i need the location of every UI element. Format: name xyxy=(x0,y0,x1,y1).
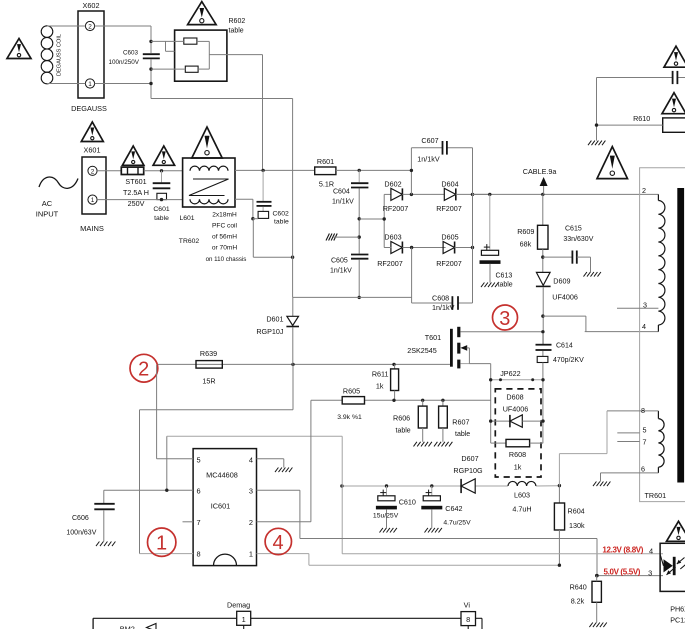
capacitor C603 xyxy=(109,50,160,67)
wire xyxy=(235,199,253,219)
diode D603 xyxy=(377,233,403,268)
svg-text:1: 1 xyxy=(156,533,167,555)
svg-text:1: 1 xyxy=(88,81,92,88)
svg-text:2: 2 xyxy=(249,518,253,527)
capacitor C607 xyxy=(417,136,447,164)
wire (bridge right leg) xyxy=(472,148,474,303)
warning triangle (X601) xyxy=(81,122,103,142)
svg-text:PH6X: PH6X xyxy=(670,605,685,614)
svg-text:RF2007: RF2007 xyxy=(436,259,462,268)
ground xyxy=(380,528,397,533)
svg-text:5: 5 xyxy=(643,426,647,435)
wire (HV+ rail) xyxy=(473,193,659,195)
svg-text:7: 7 xyxy=(197,518,201,527)
svg-text:3: 3 xyxy=(249,487,253,496)
svg-text:D601: D601 xyxy=(266,315,283,324)
svg-text:TR601: TR601 xyxy=(645,491,667,500)
wire xyxy=(358,260,360,298)
warning triangle (opto) xyxy=(667,521,685,541)
svg-text:JP622: JP622 xyxy=(500,369,520,378)
label 5.0V xyxy=(604,567,653,577)
svg-text:ST601: ST601 xyxy=(125,177,146,186)
wire (gate line) xyxy=(158,363,451,365)
svg-text:R639: R639 xyxy=(200,349,217,358)
svg-text:D602: D602 xyxy=(384,179,401,188)
svg-text:of 56mH: of 56mH xyxy=(212,234,237,241)
node xyxy=(160,198,163,201)
svg-text:table: table xyxy=(229,28,244,35)
svg-text:D608: D608 xyxy=(506,393,523,402)
node xyxy=(410,169,413,172)
capacitor C615 xyxy=(563,226,593,264)
label 12.3V xyxy=(602,546,653,556)
resistor R606 xyxy=(393,400,427,442)
wire (bottom bus) xyxy=(93,618,482,629)
svg-text:T601: T601 xyxy=(425,333,441,342)
svg-text:C642: C642 xyxy=(445,504,462,513)
svg-text:D603: D603 xyxy=(384,233,401,242)
svg-text:R604: R604 xyxy=(568,507,585,516)
wire xyxy=(95,83,151,85)
svg-text:C610: C610 xyxy=(399,498,416,507)
svg-text:D604: D604 xyxy=(441,179,458,188)
red circle 3 xyxy=(493,305,518,330)
node xyxy=(489,378,545,381)
svg-text:table: table xyxy=(274,219,289,226)
svg-text:4: 4 xyxy=(273,532,284,554)
svg-text:3: 3 xyxy=(499,308,510,330)
svg-text:1: 1 xyxy=(249,550,253,559)
svg-text:Vi: Vi xyxy=(464,600,471,609)
pin 2 xyxy=(642,186,646,195)
svg-text:3: 3 xyxy=(643,300,647,309)
wire xyxy=(292,99,294,298)
warning triangle (big) xyxy=(597,147,628,179)
wire xyxy=(95,26,151,53)
diode D608 xyxy=(491,393,543,428)
node xyxy=(149,40,152,86)
svg-text:4.7uH: 4.7uH xyxy=(512,505,531,514)
diode D605 xyxy=(436,233,462,268)
wire xyxy=(358,189,360,254)
svg-text:C603: C603 xyxy=(123,50,139,57)
optocoupler PH6x/PC12x xyxy=(660,543,685,591)
svg-text:R640: R640 xyxy=(570,583,587,592)
svg-text:MAINS: MAINS xyxy=(80,224,104,233)
resistor R607 xyxy=(439,400,471,442)
ground xyxy=(96,542,115,547)
svg-text:table: table xyxy=(455,431,470,438)
fuse ST601 xyxy=(121,167,149,208)
wire xyxy=(542,249,544,272)
svg-text:PFC coil: PFC coil xyxy=(212,223,237,230)
svg-text:2: 2 xyxy=(88,24,92,31)
svg-text:L601: L601 xyxy=(179,215,194,222)
svg-text:3.9k %1: 3.9k %1 xyxy=(337,414,362,421)
resistor R608 xyxy=(491,439,543,471)
svg-text:R605: R605 xyxy=(343,387,360,396)
warning triangle (degauss) xyxy=(7,39,31,59)
diode D604 xyxy=(436,179,462,213)
ground xyxy=(275,468,292,473)
svg-text:D605: D605 xyxy=(441,233,458,242)
red circle 1 xyxy=(148,528,176,556)
wire (pin4 gnd) xyxy=(257,459,284,468)
svg-text:C607: C607 xyxy=(421,136,438,145)
node xyxy=(358,296,361,299)
svg-text:RF2007: RF2007 xyxy=(383,204,409,213)
label JP622 xyxy=(500,369,520,378)
warning triangle xyxy=(662,93,685,114)
svg-text:5.1R: 5.1R xyxy=(319,180,334,189)
capacitor C614 xyxy=(536,333,585,364)
pin 8 row xyxy=(607,406,658,415)
svg-text:X601: X601 xyxy=(83,146,100,155)
resistor R610 xyxy=(633,114,685,132)
stub pin 5 xyxy=(617,426,646,435)
ground xyxy=(589,623,606,628)
resistor R604 xyxy=(554,486,585,566)
pin 4 xyxy=(642,322,646,331)
svg-text:table: table xyxy=(154,215,169,222)
resistor R640 xyxy=(570,574,602,623)
svg-text:R610: R610 xyxy=(633,114,650,123)
svg-text:8: 8 xyxy=(197,550,201,559)
svg-text:7: 7 xyxy=(643,438,647,447)
svg-text:1k: 1k xyxy=(376,382,384,391)
svg-text:3: 3 xyxy=(648,568,652,577)
wire xyxy=(577,257,591,272)
wire xyxy=(97,170,121,172)
svg-text:PC12X: PC12X xyxy=(670,616,685,625)
svg-text:1n/1kV: 1n/1kV xyxy=(432,303,455,312)
svg-text:UF4006: UF4006 xyxy=(503,405,529,414)
svg-text:R606: R606 xyxy=(393,414,410,423)
svg-text:1n/1kV: 1n/1kV xyxy=(417,155,440,164)
svg-text:AC: AC xyxy=(42,199,53,208)
wire xyxy=(144,170,183,172)
svg-text:R601: R601 xyxy=(317,157,334,166)
wire xyxy=(596,78,598,141)
capacitor C608 xyxy=(432,294,458,313)
node xyxy=(558,484,561,487)
svg-text:68k: 68k xyxy=(520,240,532,249)
svg-text:130k: 130k xyxy=(569,521,585,530)
node xyxy=(383,217,386,220)
svg-text:BM2: BM2 xyxy=(120,625,135,629)
svg-text:RF2007: RF2007 xyxy=(436,204,462,213)
svg-text:1: 1 xyxy=(91,197,95,204)
resistor R605 xyxy=(337,387,364,422)
wire xyxy=(456,193,490,195)
degauss coil xyxy=(41,26,62,84)
svg-text:T2.5A H: T2.5A H xyxy=(123,188,149,197)
wire (pin8) xyxy=(140,364,294,553)
node xyxy=(471,193,474,196)
svg-text:100n/63V: 100n/63V xyxy=(66,530,96,537)
wire xyxy=(54,26,85,84)
label BM2 xyxy=(120,624,156,629)
node xyxy=(291,363,395,366)
wire xyxy=(402,193,444,195)
wire xyxy=(542,194,544,225)
node xyxy=(489,419,545,422)
stub pin7 xyxy=(183,521,194,523)
svg-text:8: 8 xyxy=(641,406,645,415)
node xyxy=(251,217,254,220)
transistor T601 2SK2545 xyxy=(407,327,543,369)
wire (bridge left leg) xyxy=(384,194,391,247)
node xyxy=(541,330,544,333)
svg-text:100n/250V: 100n/250V xyxy=(109,59,140,66)
svg-text:R611: R611 xyxy=(372,370,389,379)
svg-text:table: table xyxy=(498,282,513,289)
svg-text:2: 2 xyxy=(642,186,646,195)
diode D601 xyxy=(256,297,299,364)
svg-text:TR602: TR602 xyxy=(179,238,200,245)
pin 3 tap xyxy=(617,300,658,309)
svg-text:8: 8 xyxy=(466,615,470,624)
svg-text:CABLE.9a: CABLE.9a xyxy=(523,167,557,176)
svg-text:2x18mH: 2x18mH xyxy=(212,212,237,219)
AC input source xyxy=(36,177,78,218)
warning triangle xyxy=(122,146,143,165)
pin box Vi xyxy=(461,600,476,629)
wire xyxy=(597,77,685,79)
svg-text:C615: C615 xyxy=(565,226,582,233)
wire xyxy=(489,194,491,249)
resistor R639 xyxy=(196,349,222,386)
svg-text:X602: X602 xyxy=(82,1,99,10)
wire (C607 row) xyxy=(411,148,472,195)
svg-text:2SK2545: 2SK2545 xyxy=(407,346,437,355)
svg-text:1n/1kV: 1n/1kV xyxy=(330,268,352,275)
red circle 4 xyxy=(265,528,291,554)
svg-text:RGP10J: RGP10J xyxy=(256,327,284,336)
svg-text:4: 4 xyxy=(642,322,646,331)
wire (JP622 link) xyxy=(491,379,543,381)
svg-text:DEGAUSS COIL: DEGAUSS COIL xyxy=(57,34,63,76)
svg-text:C605: C605 xyxy=(331,258,348,265)
wire xyxy=(543,256,573,258)
warning triangle (R602) xyxy=(188,2,217,25)
svg-text:DEGAUSS: DEGAUSS xyxy=(71,104,107,113)
wire xyxy=(253,219,292,258)
node xyxy=(471,246,474,249)
svg-text:1k: 1k xyxy=(514,463,522,472)
svg-text:or 70mH: or 70mH xyxy=(212,245,238,252)
label TR601 xyxy=(645,491,667,500)
capacitor C601 xyxy=(153,171,171,222)
svg-text:4.7u/25V: 4.7u/25V xyxy=(443,520,471,527)
wire (pin3 5.0V) xyxy=(257,490,664,575)
ground xyxy=(588,141,605,146)
chassis ground xyxy=(326,234,359,241)
wire xyxy=(151,60,293,99)
node xyxy=(261,169,264,172)
svg-text:C614: C614 xyxy=(556,343,573,350)
node xyxy=(165,489,168,492)
svg-text:5.0V (5.5V): 5.0V (5.5V) xyxy=(604,567,641,576)
ground xyxy=(414,442,432,447)
warning triangle xyxy=(664,46,685,67)
svg-text:IC601: IC601 xyxy=(211,502,230,511)
svg-text:C604: C604 xyxy=(333,189,350,196)
svg-text:470p/2KV: 470p/2KV xyxy=(553,357,584,364)
ground xyxy=(584,272,601,277)
resistor R611 xyxy=(372,364,399,400)
resistor R601 xyxy=(315,157,336,189)
ground xyxy=(425,528,442,533)
box corner (BM2 block) xyxy=(92,618,94,629)
diode D602 xyxy=(383,179,409,213)
capacitor (top right) xyxy=(673,71,678,84)
svg-text:MC44608: MC44608 xyxy=(206,471,238,480)
svg-text:RGP10G: RGP10G xyxy=(453,466,483,475)
node xyxy=(595,123,598,126)
svg-text:1n/1kV: 1n/1kV xyxy=(332,199,354,206)
svg-text:Demag: Demag xyxy=(227,601,250,610)
jumper block JP622 (dashed) xyxy=(495,389,541,477)
wire xyxy=(336,169,412,171)
wire (pin1) xyxy=(257,554,560,566)
wire (pin6/Vcc) xyxy=(104,436,342,490)
svg-text:D609: D609 xyxy=(553,277,570,286)
connector X602 xyxy=(71,1,107,113)
svg-text:C606: C606 xyxy=(72,515,89,522)
svg-text:R607: R607 xyxy=(452,418,469,427)
wire xyxy=(597,124,663,126)
svg-text:C602: C602 xyxy=(273,211,289,218)
wire (12.3V feedback) xyxy=(342,553,663,555)
red circle 2 xyxy=(130,354,158,382)
wire (source to JP) xyxy=(490,364,492,444)
svg-text:R609: R609 xyxy=(517,227,534,236)
svg-text:C608: C608 xyxy=(432,294,449,303)
stub pin 7 xyxy=(617,438,646,447)
node xyxy=(358,217,361,239)
svg-text:250V: 250V xyxy=(128,199,145,208)
diode D609 xyxy=(536,272,578,301)
wire xyxy=(384,247,445,249)
wire (pin2) xyxy=(257,400,311,522)
capacitor C604 xyxy=(332,170,368,205)
wire (pin8 feedback) xyxy=(559,411,607,486)
ground xyxy=(481,283,498,288)
wire xyxy=(455,247,473,249)
core xyxy=(677,188,684,483)
node xyxy=(541,255,544,258)
svg-text:D607: D607 xyxy=(461,454,478,463)
svg-text:2: 2 xyxy=(91,168,95,175)
node xyxy=(392,399,444,402)
wire xyxy=(542,363,544,444)
svg-text:5: 5 xyxy=(197,455,201,464)
svg-text:6: 6 xyxy=(197,487,201,496)
node xyxy=(160,169,163,172)
wire (C608 row) xyxy=(412,248,473,304)
net CABLE.9a xyxy=(523,167,557,194)
capacitor C613 xyxy=(480,244,513,288)
svg-text:C613: C613 xyxy=(496,273,513,280)
module box TR601 (gray) xyxy=(640,168,685,502)
wire xyxy=(262,55,264,170)
wire xyxy=(235,169,315,171)
svg-text:UF4006: UF4006 xyxy=(552,293,578,302)
svg-text:8.2k: 8.2k xyxy=(571,597,585,606)
node xyxy=(410,193,413,196)
diode D607 xyxy=(453,454,483,493)
svg-text:4: 4 xyxy=(249,455,253,464)
capacitor C606 xyxy=(66,490,114,541)
svg-text:table: table xyxy=(396,428,411,435)
capacitor C602 xyxy=(253,170,289,225)
ground xyxy=(434,442,452,447)
svg-text:INPUT: INPUT xyxy=(36,210,59,219)
wire (Vcc riser) xyxy=(341,436,343,554)
wire xyxy=(359,218,384,220)
wire (pin5) xyxy=(157,365,194,459)
svg-text:R602: R602 xyxy=(229,18,246,25)
svg-text:6: 6 xyxy=(641,464,645,473)
wire xyxy=(293,296,412,298)
warning triangle xyxy=(153,146,175,165)
node xyxy=(291,256,294,259)
ground xyxy=(593,482,610,487)
wire xyxy=(600,473,602,482)
wire xyxy=(542,287,544,344)
svg-text:15u/25V: 15u/25V xyxy=(373,513,399,520)
svg-text:33n/630V: 33n/630V xyxy=(563,236,593,243)
capacitor C605 xyxy=(330,255,368,275)
wire (12V rail) xyxy=(342,485,560,487)
pin 6 row xyxy=(601,464,659,473)
svg-text:1: 1 xyxy=(242,615,246,624)
node xyxy=(358,169,361,172)
svg-text:RF2007: RF2007 xyxy=(377,259,403,268)
svg-text:R608: R608 xyxy=(509,450,526,459)
degauss posistor R602 xyxy=(151,18,263,81)
svg-text:on 110 chassis: on 110 chassis xyxy=(206,256,247,263)
svg-text:2: 2 xyxy=(138,359,149,381)
warning triangle (L601) xyxy=(192,127,222,158)
pin box Demag xyxy=(227,601,251,629)
connector X601 MAINS xyxy=(80,146,106,234)
wire xyxy=(585,331,586,333)
svg-text:L603: L603 xyxy=(514,491,530,500)
node xyxy=(410,246,413,249)
node xyxy=(488,193,544,196)
node xyxy=(541,314,544,317)
wire xyxy=(489,264,491,283)
svg-text:C601: C601 xyxy=(153,206,169,213)
PFC coil L601 TR602 xyxy=(179,158,247,263)
capacitor C610 xyxy=(373,486,416,528)
inductor L603 xyxy=(508,481,536,513)
op-amp U1 IC601 MC44608 xyxy=(193,449,256,566)
label PH6X xyxy=(670,605,685,625)
svg-text:12.3V (8.8V): 12.3V (8.8V) xyxy=(602,546,643,555)
node xyxy=(340,484,433,487)
wire xyxy=(97,199,183,201)
primary winding xyxy=(658,194,665,331)
wire (source row) xyxy=(311,399,491,401)
capacitor C642 xyxy=(421,486,471,528)
svg-text:4: 4 xyxy=(649,546,653,555)
node xyxy=(558,564,599,578)
svg-text:15R: 15R xyxy=(202,377,215,386)
secondary winding xyxy=(658,411,664,473)
